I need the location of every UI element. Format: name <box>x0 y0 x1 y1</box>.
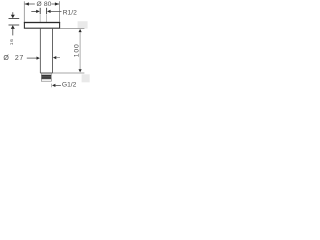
dim 16 up arrow <box>11 25 15 29</box>
dim 100 line <box>79 32 81 70</box>
stub left side <box>39 14 41 22</box>
dim d80 extension line left <box>23 1 25 22</box>
dim d80 arrow left <box>25 2 29 5</box>
svg-text:G1/2: G1/2 <box>62 82 77 89</box>
svg-text:Ø: Ø <box>37 1 42 8</box>
nipple top band <box>41 73 51 75</box>
svg-text:Ø: Ø <box>3 55 9 62</box>
nipple lower band <box>41 79 51 81</box>
dim 27 leader <box>27 57 37 59</box>
stub dim bar left <box>39 8 41 14</box>
svg-text:R1/2: R1/2 <box>63 9 77 16</box>
svg-text:80: 80 <box>44 1 52 8</box>
dim d80 arrow right <box>55 2 59 5</box>
flange bottom extension line to 100 dim <box>60 28 84 30</box>
pipe left line <box>39 28 41 73</box>
stub right side <box>46 14 48 22</box>
dim d80 dimension line <box>25 3 35 5</box>
dim d80 extension line right <box>59 1 61 22</box>
gray patch lower right <box>82 74 90 82</box>
G1/2 arrow (pointing left) <box>52 84 55 87</box>
dim 100 up arrow <box>79 29 82 32</box>
flange <box>24 23 59 29</box>
svg-text:16: 16 <box>9 38 15 45</box>
gray patch upper right <box>78 21 88 28</box>
dim 16 extension line bottom <box>9 24 20 26</box>
dim 16 down arrow <box>12 12 14 15</box>
pipe right line <box>52 28 54 73</box>
stub dim arrow right (pointing left) <box>47 10 51 13</box>
dim 27 arrow left (pointing right at pipe) <box>37 57 40 60</box>
flange top edge (darker) <box>24 22 60 24</box>
pipe end line dark part <box>40 72 52 74</box>
pipe end extension line to 100 dim <box>53 72 85 74</box>
stub dim bar right <box>46 8 48 14</box>
dim 27 arrow right (pointing left at pipe) <box>53 56 56 59</box>
background <box>0 0 90 90</box>
leader to R1/2 <box>50 10 61 12</box>
G1/2 leader <box>55 84 61 86</box>
dim 16 extension line top <box>9 18 20 20</box>
G1/2 extension tick <box>51 84 53 88</box>
svg-text:27: 27 <box>15 55 24 62</box>
svg-text:100: 100 <box>73 43 80 57</box>
dim 100 down arrow <box>79 69 82 72</box>
nipple thread band <box>41 75 51 79</box>
stub dim arrow left (pointing right) <box>31 10 37 12</box>
